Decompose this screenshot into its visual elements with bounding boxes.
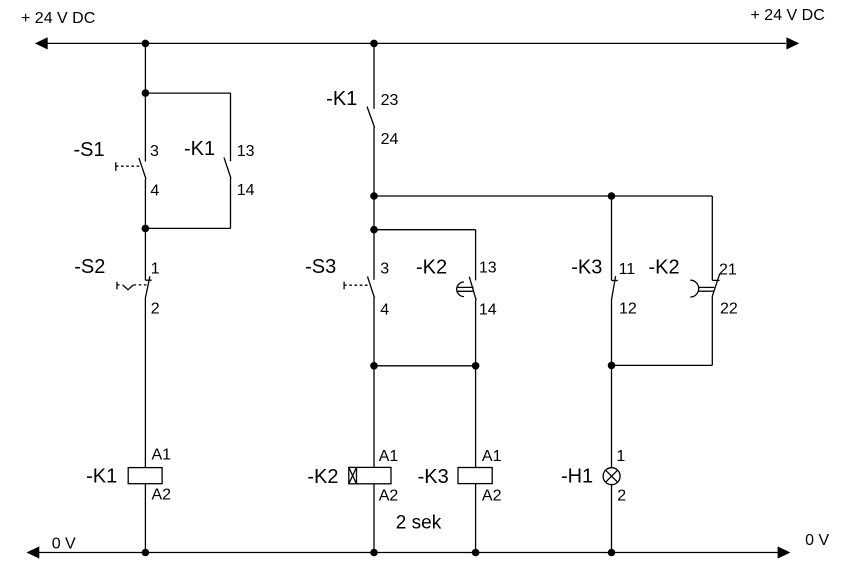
wire S2 to K1 coil xyxy=(144,298,146,468)
wire S2 upper xyxy=(144,228,146,280)
wire S3 upper xyxy=(373,230,375,280)
+24V rail left arrow xyxy=(35,37,48,49)
svg-text:A2: A2 xyxy=(152,487,172,504)
wire y365 horizontal S3-block bottom xyxy=(374,365,476,367)
svg-text:13: 13 xyxy=(237,143,255,160)
0V rail xyxy=(38,552,779,554)
svg-text:-H1: -H1 xyxy=(561,466,593,488)
wire K2 coil to 0V xyxy=(373,484,375,553)
svg-text:11: 11 xyxy=(619,261,636,278)
wire K2-14 lower xyxy=(475,300,477,366)
wire S1-block top horizontal xyxy=(145,92,230,94)
wire K3-11 upper xyxy=(611,196,613,281)
wire colA rail to S1-block xyxy=(144,43,146,93)
node colB 0V junction dot xyxy=(370,549,378,557)
svg-text:23: 23 xyxy=(381,92,399,109)
svg-text:-S2: -S2 xyxy=(74,256,105,278)
wire K3 coil to 0V xyxy=(475,484,477,553)
lamp H1 xyxy=(603,468,620,485)
svg-text:22: 22 xyxy=(720,301,738,318)
svg-text:1: 1 xyxy=(151,260,160,277)
wire H1 to 0V xyxy=(611,485,613,553)
svg-text:-K3: -K3 xyxy=(418,466,449,488)
wire y230 horizontal S3-block top xyxy=(374,229,476,231)
wire S1-block bottom horizontal xyxy=(145,227,230,229)
svg-text:A2: A2 xyxy=(482,488,502,505)
wire node196 to node230 xyxy=(373,196,375,230)
svg-text:0 V: 0 V xyxy=(52,535,76,552)
wire S3 lower xyxy=(373,298,375,366)
node C196 junction dot xyxy=(608,192,616,200)
svg-text:-K3: -K3 xyxy=(571,256,602,278)
node C365 junction dot xyxy=(608,362,616,370)
svg-text:A1: A1 xyxy=(482,448,502,465)
svg-text:14: 14 xyxy=(479,301,497,318)
svg-text:-S3: -S3 xyxy=(305,256,336,278)
+24V rail right arrow xyxy=(786,37,799,49)
svg-text:4: 4 xyxy=(150,183,159,200)
svg-text:+ 24 V DC: + 24 V DC xyxy=(751,7,825,24)
0V rail left arrow xyxy=(27,546,40,558)
svg-text:A2: A2 xyxy=(379,488,399,505)
svg-text:14: 14 xyxy=(237,182,255,199)
node rail-B junction dot xyxy=(370,40,378,48)
svg-text:3: 3 xyxy=(150,143,159,160)
wire K2-21 upper xyxy=(711,196,713,280)
switch S3 pushbutton NO contact xyxy=(344,277,374,299)
node B196 junction dot xyxy=(370,192,378,200)
wire y196 horizontal to K3 branch xyxy=(374,195,712,197)
wire colB rail to K1-23 xyxy=(373,43,375,108)
svg-text:-K2: -K2 xyxy=(416,257,447,279)
coil K1 xyxy=(128,468,162,484)
node rail-A junction dot xyxy=(142,40,150,48)
coil K2 timer xyxy=(349,467,391,483)
contact K2 21/22 NC delayed xyxy=(690,273,720,297)
svg-text:+ 24 V DC: + 24 V DC xyxy=(21,10,95,27)
svg-text:-K1: -K1 xyxy=(86,465,117,487)
svg-text:-K1: -K1 xyxy=(184,138,215,160)
svg-text:2 sek: 2 sek xyxy=(396,512,442,533)
svg-text:24: 24 xyxy=(381,131,399,148)
node colC 0V junction dot xyxy=(608,549,616,557)
wire node365 to K2 coil xyxy=(373,366,375,468)
switch S1 pushbutton NO contact xyxy=(116,158,146,179)
wire K2-22 lower xyxy=(711,296,713,365)
svg-text:-K2: -K2 xyxy=(307,466,338,488)
contact K2 13/14 NO delayed xyxy=(457,277,477,301)
svg-text:4: 4 xyxy=(380,301,389,318)
svg-text:2: 2 xyxy=(617,487,626,504)
node B365 junction dot xyxy=(370,362,378,370)
svg-text:12: 12 xyxy=(619,300,637,317)
wire K2-13 upper xyxy=(475,230,477,281)
contact K1 13/14 NO xyxy=(224,158,231,179)
wire K1 coil to 0V xyxy=(144,484,146,553)
svg-text:0 V: 0 V xyxy=(805,532,829,549)
0V rail right arrow xyxy=(778,546,791,558)
wire K1-13 upper xyxy=(230,93,232,161)
wire K1-24 to node196 xyxy=(373,127,375,196)
svg-text:1: 1 xyxy=(616,448,625,465)
svg-text:3: 3 xyxy=(380,261,389,278)
svg-text:2: 2 xyxy=(151,300,160,317)
node S1-block bottom junction dot xyxy=(142,225,150,233)
svg-text:-K2: -K2 xyxy=(648,256,679,278)
contact K3 11/12 NC xyxy=(612,276,618,300)
switch S2 pushbutton NC contact xyxy=(117,276,152,298)
wire S1 lower xyxy=(144,179,146,228)
contact K1 23/24 NO xyxy=(367,107,375,128)
svg-text:A1: A1 xyxy=(379,448,399,465)
svg-text:21: 21 xyxy=(719,262,737,279)
svg-text:-S1: -S1 xyxy=(73,139,104,161)
node S1-block top junction dot xyxy=(142,89,150,97)
wire K2-14 node to K3 coil xyxy=(475,366,477,468)
+24V rail xyxy=(46,42,786,44)
node colA 0V junction dot xyxy=(142,549,150,557)
coil K3 xyxy=(458,468,492,484)
svg-text:A1: A1 xyxy=(152,447,172,464)
wire S1 upper xyxy=(144,93,146,161)
wire K3-12 lower xyxy=(611,300,613,366)
svg-text:13: 13 xyxy=(479,260,497,277)
node colB2 0V junction dot xyxy=(472,549,480,557)
svg-text:-K1: -K1 xyxy=(326,88,357,110)
node B230 junction dot xyxy=(370,226,378,234)
wire y365 horizontal K2-21 branch bottom xyxy=(612,364,713,366)
wire node C365 to lamp H1 xyxy=(611,365,613,467)
node B2-365 junction dot xyxy=(472,362,480,370)
wire K1-14 lower xyxy=(230,178,232,228)
